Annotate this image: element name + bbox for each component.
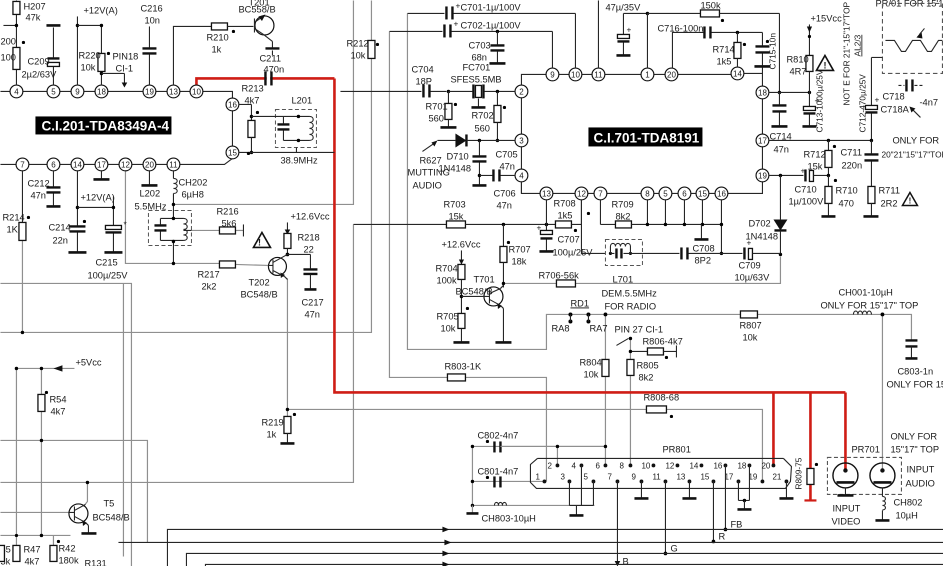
wire R216 run <box>191 229 219 231</box>
svg-text:+12.6Vcc: +12.6Vcc <box>290 211 329 221</box>
wire R pin15 <box>712 481 726 543</box>
resistor R217 2k2 <box>197 261 235 292</box>
wire pin13 riser <box>173 26 212 85</box>
wire red main vertical and horizontal <box>334 78 845 392</box>
svg-text:1: 1 <box>535 472 540 481</box>
svg-text:G: G <box>670 543 677 553</box>
resistor R709 8k2 <box>600 199 721 228</box>
capacitor C713 1000u/25V <box>802 69 824 132</box>
svg-text:38.9MHz: 38.9MHz <box>280 155 318 165</box>
connector PR801 outline <box>530 444 791 488</box>
label INPUT AUDIO <box>905 464 934 488</box>
svg-text:14: 14 <box>733 69 742 78</box>
wire vertical bus x353 lower segment <box>0 224 353 482</box>
filter FC701 SFES5.5MB <box>448 62 515 107</box>
capacitor C710 1u/100V <box>788 165 830 206</box>
IC701 label <box>588 127 702 146</box>
svg-text:6: 6 <box>595 461 600 470</box>
svg-text:12: 12 <box>577 189 586 198</box>
pin 6 <box>47 158 60 171</box>
svg-text:R705: R705 <box>436 311 458 321</box>
svg-text:C212: C212 <box>27 178 49 188</box>
capacitor C705 47n <box>472 140 517 185</box>
svg-text:4: 4 <box>519 171 524 180</box>
resistor 150k <box>647 0 779 68</box>
svg-text:FOR RADIO: FOR RADIO <box>604 301 656 311</box>
pin 9 <box>546 68 559 81</box>
svg-text:C710: C710 <box>794 184 816 194</box>
svg-text:R703: R703 <box>443 199 465 209</box>
svg-text:BC558/B: BC558/B <box>238 4 275 14</box>
wire R54 branch y440 <box>0 440 147 542</box>
supply +12.6Vcc T701 <box>441 239 480 264</box>
resistor R703 15k <box>443 199 555 228</box>
resistor R806 4k7 <box>629 336 683 359</box>
svg-text:+: + <box>746 237 751 247</box>
label -4n7 with arrow <box>909 97 938 117</box>
wire pin5 stub <box>664 199 667 226</box>
wire vertical bus x371 to y332 <box>0 0 371 332</box>
coil L201 tank <box>251 95 318 165</box>
svg-text:C712-470µ/25V: C712-470µ/25V <box>857 74 867 133</box>
svg-text:R809-75: R809-75 <box>793 457 803 489</box>
svg-text:R217: R217 <box>197 269 219 279</box>
svg-text:1N4148: 1N4148 <box>438 163 471 173</box>
svg-text:47n: 47n <box>304 309 320 319</box>
svg-text:10: 10 <box>641 461 650 470</box>
label PIN18 CI-1 with arrow <box>100 51 139 87</box>
svg-text:L202: L202 <box>139 188 160 198</box>
capacitor C717 47u/35V <box>598 0 649 68</box>
svg-text:R708: R708 <box>553 198 575 208</box>
capacitor C803 1n <box>886 340 943 389</box>
pin 15 <box>696 187 709 200</box>
pin 18 <box>95 85 108 98</box>
svg-text:R808-68: R808-68 <box>643 392 679 402</box>
svg-text:100µ/25V: 100µ/25V <box>552 247 593 257</box>
svg-text:18k: 18k <box>511 256 526 266</box>
svg-text:C215: C215 <box>95 257 117 267</box>
ground pins17-18 <box>737 465 751 509</box>
coil L202 tank <box>148 210 191 265</box>
pin 1 <box>641 68 654 81</box>
svg-text:4R7: 4R7 <box>789 66 806 76</box>
svg-text:8: 8 <box>619 461 624 470</box>
wire pin15 run <box>238 152 334 155</box>
pin 5 <box>47 85 60 98</box>
svg-text:PIN 27 CI-1: PIN 27 CI-1 <box>614 324 663 334</box>
svg-text:5: 5 <box>583 472 588 481</box>
wire node H207 <box>3 24 18 27</box>
pin 8 <box>641 187 654 200</box>
wire B pin7 <box>615 481 629 566</box>
capacitor C215 100u/25V <box>87 219 128 280</box>
svg-text:+15Vcc: +15Vcc <box>810 13 842 23</box>
svg-text:C.I.701-TDA8191: C.I.701-TDA8191 <box>593 130 699 145</box>
wire pin2 branch <box>556 446 558 465</box>
svg-text:100: 100 <box>0 52 16 62</box>
diode D710 1N4148 <box>437 133 515 173</box>
svg-text:RA7: RA7 <box>589 323 607 333</box>
svg-text:2: 2 <box>547 461 552 470</box>
resistor R711 2R2 <box>863 185 900 216</box>
svg-text:C.I.201-TDA8349A-4: C.I.201-TDA8349A-4 <box>41 118 169 133</box>
ground y224 rail <box>694 224 708 239</box>
svg-text:11: 11 <box>594 70 603 79</box>
svg-text:7: 7 <box>607 472 612 481</box>
wire R54 vertical x41 <box>40 368 42 535</box>
capacitor C718 dashed <box>880 79 922 114</box>
svg-text:H207: H207 <box>23 1 45 11</box>
wire pin18 run <box>768 91 811 94</box>
svg-text:10k: 10k <box>742 332 757 342</box>
svg-text:17: 17 <box>758 136 767 145</box>
ground red bar under R809 <box>804 499 816 501</box>
pin 11 <box>167 158 180 171</box>
svg-text:18: 18 <box>97 87 106 96</box>
resistor R807 10k <box>739 311 761 343</box>
pin 17 <box>756 134 769 147</box>
svg-text:2k2: 2k2 <box>201 281 216 291</box>
svg-text:1k: 1k <box>266 429 276 439</box>
wire IC201 row1 bus <box>0 90 196 92</box>
svg-text:R710: R710 <box>835 185 857 195</box>
pin 19 <box>756 169 769 182</box>
pin 4 <box>515 169 528 182</box>
svg-text:4k7: 4k7 <box>24 556 39 566</box>
capacitor C711 220n <box>840 140 878 186</box>
wire R219 output run y409 to PR801 pin19 <box>287 409 762 481</box>
transistor T701 BC548/B <box>455 274 511 342</box>
svg-text:47n: 47n <box>496 200 512 210</box>
svg-text:PR801: PR801 <box>662 444 690 454</box>
svg-text:D702: D702 <box>748 218 770 228</box>
svg-text:6: 6 <box>682 189 687 198</box>
svg-text:CH802: CH802 <box>893 497 922 507</box>
svg-text:10µH: 10µH <box>895 510 917 520</box>
svg-text:R706-56k: R706-56k <box>538 270 579 280</box>
svg-text:RD1: RD1 <box>570 298 589 308</box>
svg-text:150k: 150k <box>700 0 721 10</box>
svg-text:NOT E FOR 21"-15"17"TOP: NOT E FOR 21"-15"17"TOP <box>841 1 851 105</box>
svg-text:C718: C718 <box>882 91 904 101</box>
supply +12V(A) row2 <box>77 192 115 225</box>
connector PR701 dashed box <box>827 457 901 494</box>
warning triangle R810 <box>816 55 833 70</box>
svg-text:AUDIO: AUDIO <box>412 180 441 190</box>
svg-text:3: 3 <box>519 136 524 145</box>
svg-text:21: 21 <box>772 472 781 481</box>
svg-text:6µH8: 6µH8 <box>181 189 203 199</box>
bus line 4 B <box>205 562 943 566</box>
pin 4 <box>10 85 23 98</box>
pin 20 <box>665 68 678 81</box>
capacitor C209 <box>21 25 60 85</box>
pin 15 <box>226 146 239 159</box>
svg-text:8P2: 8P2 <box>694 255 711 265</box>
transistor T202 BC548/B <box>240 254 287 299</box>
wire L202 output y263 <box>125 170 219 263</box>
capacitor C708 8P2 <box>642 243 721 265</box>
svg-text:C711: C711 <box>840 147 862 157</box>
pin 7 <box>16 158 29 171</box>
wire pin16 drop to C708 <box>720 199 723 255</box>
svg-text:10: 10 <box>192 87 201 96</box>
capacitor C712 470u/25V <box>857 57 879 140</box>
svg-text:15: 15 <box>228 148 237 157</box>
resistor R200 <box>0 36 25 69</box>
svg-text:R213: R213 <box>241 83 263 93</box>
warning triangle R711 <box>902 192 917 205</box>
svg-text:C702-1µ/100V: C702-1µ/100V <box>460 20 521 30</box>
svg-text:10k: 10k <box>80 62 95 72</box>
svg-text:47n: 47n <box>30 190 46 200</box>
pin 18 <box>756 86 769 99</box>
pin 11 <box>592 68 605 81</box>
capacitor C212 47n <box>27 170 60 206</box>
pin 10 <box>569 68 582 81</box>
svg-text:R: R <box>718 531 725 541</box>
pin 13 <box>167 85 180 98</box>
resistor R714 1k5 <box>712 32 746 67</box>
svg-text:BC548/B: BC548/B <box>455 286 492 296</box>
capacitor C707 100u/25V <box>536 222 593 257</box>
svg-text:16: 16 <box>717 189 726 198</box>
svg-text:-4n7: -4n7 <box>919 97 938 107</box>
svg-text:ONLY FOR 15"17" TOP: ONLY FOR 15"17" TOP <box>820 300 918 310</box>
wire R214 lower <box>21 240 23 332</box>
supply +12V(A) top <box>76 5 118 85</box>
svg-text:AL2/3: AL2/3 <box>852 34 862 56</box>
svg-text:15"17" TOP: 15"17" TOP <box>890 444 939 454</box>
resistor R214 1K <box>2 170 30 334</box>
resistor R218 22 <box>284 232 320 256</box>
svg-text:20"21"15"17"TOP: 20"21"15"17"TOP <box>881 149 943 159</box>
svg-text:CH803-10µH: CH803-10µH <box>481 513 535 523</box>
svg-text:100µ/25V: 100µ/25V <box>87 270 128 280</box>
svg-text:19: 19 <box>145 87 154 96</box>
svg-text:200: 200 <box>0 36 16 46</box>
resistor R712 15k <box>825 140 832 176</box>
wire R703 run y224 <box>353 223 446 225</box>
label NOTE FOR rotated <box>841 1 862 105</box>
svg-text:47n: 47n <box>499 161 515 171</box>
wire R216 right stub <box>235 229 243 231</box>
ground pin17 <box>93 170 109 179</box>
svg-text:R810: R810 <box>786 54 808 64</box>
svg-text:INPUT: INPUT <box>832 503 860 513</box>
pin 13 <box>540 187 553 200</box>
pin 12 <box>575 187 588 200</box>
svg-text:22: 22 <box>303 244 313 254</box>
svg-text:8: 8 <box>645 189 650 198</box>
svg-text:DEM.5.5MHz: DEM.5.5MHz <box>601 288 657 298</box>
svg-text:11: 11 <box>652 472 661 481</box>
capacitor C701 1u/100V <box>407 0 575 68</box>
svg-text:R709: R709 <box>611 199 633 209</box>
svg-text:5: 5 <box>663 189 668 198</box>
wire vertical bus x389 to R803 run <box>389 31 546 481</box>
svg-text:14: 14 <box>73 160 82 169</box>
svg-text:R804: R804 <box>579 357 601 367</box>
svg-text:C214: C214 <box>48 222 70 232</box>
resistor R220 10k <box>77 24 110 86</box>
wire C802 net <box>472 446 605 505</box>
resistor R219 1k <box>261 408 296 444</box>
label RA8 RA7 <box>551 313 607 334</box>
svg-text:8k2: 8k2 <box>615 211 630 221</box>
svg-text:5k6: 5k6 <box>221 218 236 228</box>
svg-text:13: 13 <box>542 189 551 198</box>
svg-text:C707: C707 <box>557 234 579 244</box>
PR801 even pin dots <box>556 464 776 468</box>
wire R706 run y283 <box>503 256 780 283</box>
wire vertical bus x353 <box>173 0 353 204</box>
capacitor C216 10n <box>140 3 162 85</box>
svg-text:RA8: RA8 <box>551 323 569 333</box>
pin 17 <box>95 158 108 171</box>
resistor R210 1k <box>206 23 253 55</box>
pin 14 <box>731 67 744 80</box>
wire bottom-left box edge <box>0 283 131 566</box>
svg-text:7: 7 <box>20 160 25 169</box>
wire pin19 run <box>768 174 803 177</box>
wire vertical bus x407 to y349 run <box>407 13 911 349</box>
resistor R810 4R7 <box>786 54 813 92</box>
svg-text:4k7: 4k7 <box>50 406 65 416</box>
svg-text:2: 2 <box>519 87 524 96</box>
svg-text:2µ2/63V: 2µ2/63V <box>21 69 57 79</box>
svg-text:+: + <box>626 24 631 34</box>
ground pin13 <box>682 481 696 498</box>
svg-text:12: 12 <box>665 461 674 470</box>
svg-text:R803-1K: R803-1K <box>444 361 481 371</box>
PR801 even pin labels <box>547 461 770 470</box>
label INPUT VIDEO <box>831 503 860 526</box>
supply +5Vcc <box>15 357 102 371</box>
svg-text:C801-4n7: C801-4n7 <box>477 466 518 476</box>
resistor R706 56k <box>538 270 579 287</box>
pin 14 <box>71 158 84 171</box>
svg-text:R711: R711 <box>878 185 900 195</box>
pin 19 <box>143 85 156 98</box>
svg-text:4k7: 4k7 <box>244 95 259 105</box>
wire pin13 drop <box>545 199 547 224</box>
capacitor C716 100n <box>657 23 762 68</box>
svg-text:R216: R216 <box>216 206 238 216</box>
transistor T5 BC548/B <box>69 481 130 534</box>
svg-text:15: 15 <box>698 189 707 198</box>
inductor CH803 10uH <box>466 502 535 523</box>
svg-text:SFES5.5MB: SFES5.5MB <box>450 74 501 84</box>
svg-text:R714: R714 <box>712 44 734 54</box>
waveform box PR/01 <box>871 0 943 73</box>
wire red branch to PR801 pin20 <box>772 392 775 464</box>
svg-text:C803-1n: C803-1n <box>897 366 933 376</box>
svg-text:47n: 47n <box>773 144 789 154</box>
svg-text:CI-1: CI-1 <box>115 63 133 73</box>
switch pin27 <box>616 337 632 346</box>
svg-text:C216: C216 <box>140 3 162 13</box>
svg-text:R707: R707 <box>508 244 530 254</box>
capacitor C211 470n (in red line) <box>259 53 284 85</box>
diode D702 1N4148 <box>745 175 787 256</box>
svg-text:!: ! <box>823 60 826 70</box>
svg-text:R701: R701 <box>425 101 447 111</box>
svg-text:D710: D710 <box>446 151 468 161</box>
svg-text:12: 12 <box>121 160 130 169</box>
svg-text:C209: C209 <box>27 56 49 66</box>
svg-text:C715-10n: C715-10n <box>767 33 777 70</box>
inductor CH802 10uH <box>875 487 922 520</box>
svg-text:47µ/35V: 47µ/35V <box>605 2 641 12</box>
resistor R805 8k2 <box>627 359 659 382</box>
wire R804 feed x605 <box>604 314 606 465</box>
svg-text:68n: 68n <box>471 52 487 62</box>
svg-text:20: 20 <box>145 160 154 169</box>
svg-text:5: 5 <box>51 87 56 96</box>
svg-text:R220: R220 <box>78 50 100 60</box>
pin 16 <box>715 187 728 200</box>
svg-text:FB: FB <box>730 519 742 529</box>
svg-text:R214: R214 <box>2 212 24 222</box>
capacitor C709 10u/63V <box>721 237 780 282</box>
svg-text:8k2: 8k2 <box>638 372 653 382</box>
wire T5 base y512 <box>0 511 69 513</box>
wire red branch through R809 <box>809 392 812 500</box>
svg-text:4: 4 <box>14 87 19 96</box>
capacitor C714 47n <box>769 92 791 154</box>
PR801 odd pin labels <box>535 472 781 481</box>
bus line 1 FB <box>167 527 943 566</box>
svg-text:7: 7 <box>598 189 603 198</box>
svg-text:R702: R702 <box>471 110 493 120</box>
svg-text:R210: R210 <box>206 32 228 42</box>
resistor H207 <box>13 0 46 85</box>
svg-text:18: 18 <box>737 461 746 470</box>
bus line 2 R <box>118 540 943 546</box>
svg-text:+: + <box>874 94 879 104</box>
capacitor C801 4n7 <box>471 445 519 488</box>
label R45 fragment <box>0 544 11 566</box>
svg-text:19: 19 <box>758 171 767 180</box>
ground pin9 <box>634 481 648 498</box>
wire pin12 drop to L701 <box>581 199 605 253</box>
label ONLY FOR 15"17" TOP right <box>890 431 939 454</box>
resistor R705 10k <box>436 307 469 343</box>
svg-text:C802-4n7: C802-4n7 <box>477 430 518 440</box>
capacitor C802 4n7 <box>477 430 607 452</box>
svg-text:C211: C211 <box>259 53 281 63</box>
resistor R704 100k <box>435 263 465 313</box>
svg-text:+12.6Vcc: +12.6Vcc <box>441 239 480 249</box>
resistor R42 180k <box>50 535 79 565</box>
svg-text:ONLY FOR 15": ONLY FOR 15" <box>886 379 943 389</box>
wire pin4 to pin13 <box>520 181 522 193</box>
svg-text:47k: 47k <box>25 12 40 22</box>
svg-text:PR701: PR701 <box>851 444 879 454</box>
wire pin17 run <box>768 139 873 172</box>
svg-text:AUDIO: AUDIO <box>905 478 934 488</box>
wire pin8 stub <box>646 199 649 226</box>
svg-text:C701-1µ/100V: C701-1µ/100V <box>460 2 521 12</box>
label R627 MUTTING AUDIO <box>407 140 449 190</box>
resistor R54 4k7 <box>38 391 67 537</box>
svg-text:+12V(A): +12V(A) <box>80 192 114 202</box>
svg-text:1: 1 <box>645 70 650 79</box>
wire bottom-left inner vertical x123 <box>122 283 124 556</box>
inductor CH001 <box>820 287 918 316</box>
